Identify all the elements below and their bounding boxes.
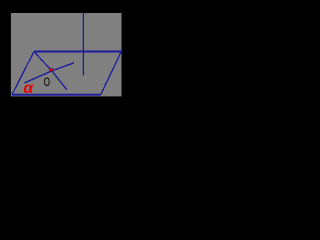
ray from O up-left to vertex A xyxy=(34,52,52,71)
plane alpha: top edge A-B xyxy=(34,51,122,53)
svg-text:α: α xyxy=(24,80,35,97)
plane alpha: left edge A-D xyxy=(12,52,34,95)
ray from O down-right xyxy=(52,71,67,90)
black background xyxy=(0,0,133,107)
svg-text:O: O xyxy=(44,75,50,89)
point O marker (red square) xyxy=(50,68,53,71)
plane alpha: right edge C-B xyxy=(101,52,122,95)
plane alpha: bottom edge D-C xyxy=(12,94,101,96)
vertical line xyxy=(82,13,84,75)
gray drawing canvas xyxy=(11,13,122,96)
ray from O down-left xyxy=(25,71,52,83)
ray from O up-right xyxy=(52,63,74,71)
